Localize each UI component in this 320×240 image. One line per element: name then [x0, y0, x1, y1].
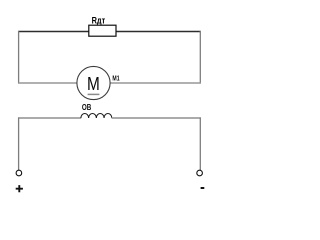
motor underline	[88, 93, 100, 95]
svg-text:Rдт: Rдт	[92, 15, 106, 26]
terminal circle +	[16, 170, 22, 176]
svg-text:ОВ: ОВ	[82, 103, 92, 112]
wire field row right segment	[112, 117, 201, 119]
wire left side of armature loop	[18, 31, 20, 84]
svg-text:M: M	[87, 73, 100, 94]
wire top side of armature loop	[18, 31, 201, 33]
wire left drop to + terminal	[18, 117, 20, 170]
wire field row left segment	[18, 117, 81, 119]
svg-text:M1: M1	[112, 74, 120, 83]
label +	[16, 185, 23, 192]
terminal circle -	[197, 170, 203, 176]
wire motor row (bottom side of armature loop)	[18, 82, 201, 84]
motor M1 (circle)	[77, 66, 110, 99]
wire right drop to - terminal	[199, 117, 201, 170]
label -	[201, 187, 205, 189]
inductor OB (field winding)	[81, 114, 112, 119]
resistor Rдт (box)	[89, 25, 116, 36]
wire right side of armature loop	[199, 31, 201, 84]
